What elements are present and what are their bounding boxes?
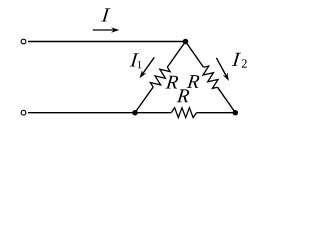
wire bottom resistor left lead <box>135 112 171 114</box>
current arrow I2 <box>216 58 229 81</box>
wire bottom horizontal <box>28 112 135 114</box>
current arrow I1 <box>140 57 155 78</box>
wire top horizontal <box>28 41 186 43</box>
current arrow I <box>93 27 120 32</box>
resistor R (left leg) zigzag <box>150 67 170 87</box>
value label R (left leg) <box>165 76 178 89</box>
current label I2 <box>232 53 247 68</box>
terminal bottom-left open circle <box>21 110 26 115</box>
value label R (bottom) <box>177 89 190 102</box>
node apex junction dot <box>183 39 189 45</box>
wire bottom resistor right lead <box>197 112 236 114</box>
value label R (right leg) <box>187 75 200 88</box>
terminal top-left open circle <box>21 39 26 44</box>
node bottom-left junction dot <box>132 110 138 116</box>
wire left leg upper segment <box>167 42 185 68</box>
wire right leg lower segment <box>218 87 236 112</box>
resistor R (bottom) zigzag <box>171 108 196 118</box>
current label I <box>101 8 110 21</box>
resistor R (right leg) zigzag <box>203 66 218 88</box>
wire left leg lower segment <box>135 87 153 113</box>
node bottom-right junction dot <box>233 110 239 116</box>
wire right leg upper segment <box>186 42 204 68</box>
current label I1 <box>130 53 142 68</box>
